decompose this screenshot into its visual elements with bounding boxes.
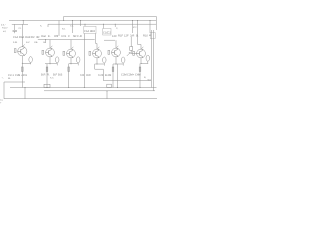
svg-text:C: C [68,35,70,38]
svg-text:10k: 10k [34,41,38,44]
svg-text:B.F: B.F [53,73,58,76]
svg-text:R2: R2 [31,36,35,39]
svg-text:B.B: B.B [58,73,63,76]
svg-text:t.u,: t.u, [0,99,3,102]
svg-text:C-R: C-R [77,35,82,38]
svg-text:OA9: OA9 [25,36,31,39]
svg-text:B.R: B.R [41,73,46,76]
svg-text:3.01: 3.01 [61,35,67,38]
svg-text:Offi: Offi [54,35,59,38]
svg-text:-0.5: -0.5 [147,79,152,82]
svg-text:Fd,2>: Fd,2> [2,27,8,30]
svg-text:8F: 8F [149,34,152,37]
svg-text:0.04: 0.04 [13,41,18,44]
svg-text:3R: 3R [36,36,39,39]
svg-text:R1F: R1F [118,34,123,37]
svg-text:d.4,~: d.4,~ [1,24,7,27]
svg-text:B,: B, [144,76,146,79]
svg-text:12F: 12F [124,34,129,37]
svg-text:4n7: 4n7 [26,41,30,44]
svg-text:A.C: A.C [50,77,54,80]
svg-text:0.R: 0.R [80,74,84,77]
svg-text:R10: R10 [143,34,148,37]
svg-text:ml,: ml, [3,30,6,33]
svg-text:OW: OW [86,74,91,77]
svg-text:0.2R: 0.2R [98,74,104,77]
svg-text:C2: C2 [108,32,112,35]
svg-text:C1: C1 [19,27,23,30]
svg-text:E.: E. [48,35,51,38]
svg-text:8R4: 8R4 [90,30,95,33]
svg-text:B.: B. [136,34,139,37]
svg-text:BL: BL [8,77,11,80]
svg-text:R.: R. [47,73,50,76]
svg-text:IC2: IC2 [133,26,137,29]
svg-text:R1A: R1A [19,36,24,39]
svg-text:+201: +201 [21,74,28,77]
svg-text:C2M+: C2M+ [127,73,135,76]
svg-text:?: ? [0,102,2,105]
svg-text:B.2M: B.2M [105,74,112,77]
svg-text:+,: +, [2,76,4,79]
svg-text:C1,: C1, [70,25,74,28]
svg-text:C2-1: C2-1 [8,74,14,77]
svg-text:IC1: IC1 [62,28,66,31]
svg-text:A,: A, [40,25,42,28]
svg-text:C2B: C2B [15,74,20,77]
svg-text:C1A: C1A [84,30,89,33]
svg-text:C,: C, [116,27,119,30]
svg-text:6R: 6R [73,35,76,38]
svg-text:Oan: Oan [41,35,47,38]
svg-text:12C: 12C [112,35,117,38]
svg-text:3-R: 3-R [130,34,134,37]
svg-text:C1A: C1A [13,36,18,39]
svg-text:C4M: C4M [135,73,141,76]
